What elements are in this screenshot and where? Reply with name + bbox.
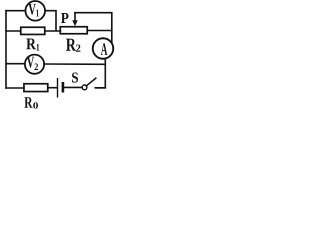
- label R1: [26, 39, 39, 51]
- resistor R0: [24, 84, 48, 92]
- wire V1 right then down to R1-R2 node: [46, 11, 56, 31]
- resistor R1: [21, 27, 45, 34]
- battery long thin plate: [57, 79, 59, 97]
- label V1: [28, 4, 38, 17]
- wire R0 to battery: [48, 87, 57, 89]
- voltmeter V1: [25, 1, 45, 21]
- switch S lever: [86, 78, 96, 86]
- label R0: [24, 97, 38, 108]
- slider P arrowhead: [72, 20, 77, 26]
- label S: [72, 72, 78, 82]
- ammeter A: [93, 38, 114, 59]
- wire left vertical bus: [5, 11, 7, 88]
- wire R1 to R2: [46, 30, 61, 32]
- wire V2 right to node under ammeter: [44, 63, 105, 65]
- wire bottom-left to R0: [6, 87, 24, 89]
- wire R2 right to vertical: [88, 30, 112, 32]
- wire battery to switch pivot: [64, 86, 82, 88]
- label R2: [66, 39, 80, 52]
- wire slider stem of P: [74, 13, 76, 21]
- wire R1 row left: [6, 30, 21, 32]
- resistor R2 rheostat body: [60, 27, 87, 34]
- wire ammeter bottom down then left to switch: [97, 59, 106, 88]
- voltmeter V2: [25, 55, 44, 74]
- wire slider top across to right corner and down: [75, 13, 112, 44]
- wire top-left corner to V1: [6, 10, 25, 12]
- battery short thick plate: [62, 83, 65, 91]
- wire V2 row left: [6, 63, 24, 65]
- label P: [61, 13, 69, 23]
- switch S pivot circle: [82, 85, 87, 90]
- wire switch right contact to corner: [95, 87, 105, 89]
- label A: [101, 43, 107, 55]
- label V2: [27, 57, 38, 70]
